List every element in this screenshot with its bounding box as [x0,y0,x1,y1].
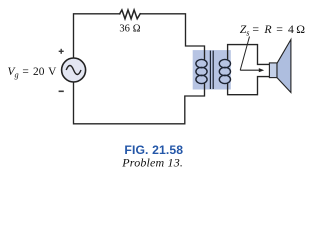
svg-text:Vg=20V: Vg=20V [8,66,58,80]
svg-text:Zs=R=4Ω: Zs=R=4Ω [240,22,306,38]
svg-text:Problem 13.: Problem 13. [121,155,183,169]
svg-text:36Ω: 36Ω [119,24,140,35]
